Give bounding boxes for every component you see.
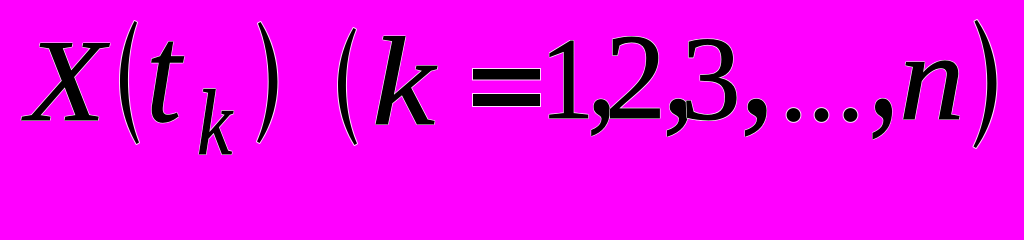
digit 2 — [605, 18, 666, 140]
close paren of k-list — [974, 20, 997, 148]
ellipsis dot 3 — [844, 108, 858, 122]
close paren of t_k — [257, 22, 277, 143]
n — [899, 16, 964, 139]
comma 1 — [587, 0, 617, 138]
comma 2 — [662, 0, 697, 139]
k — [372, 20, 435, 146]
comma 3 — [740, 0, 775, 139]
equals sign bottom bar — [473, 94, 540, 106]
ellipsis dot 1 — [787, 108, 801, 122]
ellipsis dot 2 — [815, 108, 829, 122]
comma 4 — [868, 0, 900, 141]
digit 3 — [681, 19, 741, 139]
equals sign top bar — [473, 69, 540, 80]
digit 1 — [540, 22, 594, 139]
open paren of t_k — [120, 21, 139, 144]
k subscript — [197, 78, 232, 171]
open paren of k-list — [338, 28, 357, 145]
t — [146, 5, 181, 145]
X — [26, 24, 105, 141]
